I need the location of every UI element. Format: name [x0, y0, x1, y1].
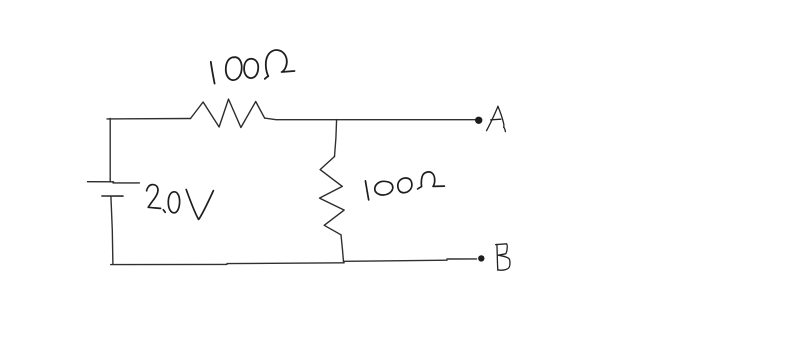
wire: bottom wire left segment	[111, 263, 227, 265]
wire: left vertical from top wire down to battery	[109, 118, 111, 181]
wire: bottom wire second segment	[227, 262, 344, 265]
wire: middle branch from top wire down to R2	[335, 120, 337, 157]
wire: middle branch from R2 down to bottom wire	[341, 235, 344, 263]
battery V1: long (+) plate	[88, 182, 140, 183]
label: terminal letter A	[487, 106, 506, 131]
wire: bottom wire third segment	[344, 260, 447, 261]
label: R2 value 100 ohm (handwritten)	[365, 172, 444, 200]
node A terminal dot	[475, 117, 482, 124]
label: terminal letter B	[496, 244, 510, 270]
battery V1: short (-) plate	[102, 195, 123, 197]
label: R1 value 100 ohm (handwritten)	[211, 50, 295, 84]
node B terminal dot	[478, 255, 484, 261]
resistor R2 (middle vertical zigzag)	[320, 157, 345, 235]
wire: top wire right segment (R1 to node A)	[265, 118, 477, 120]
wire: left vertical from battery down to bottom wire	[111, 196, 113, 264]
wire: top wire left segment (battery + to R1)	[107, 118, 191, 120]
label: battery value 2.0V	[147, 185, 214, 220]
wire: bottom wire right segment (to node B)	[447, 258, 477, 260]
resistor R1 (top horizontal zigzag)	[191, 99, 265, 127]
